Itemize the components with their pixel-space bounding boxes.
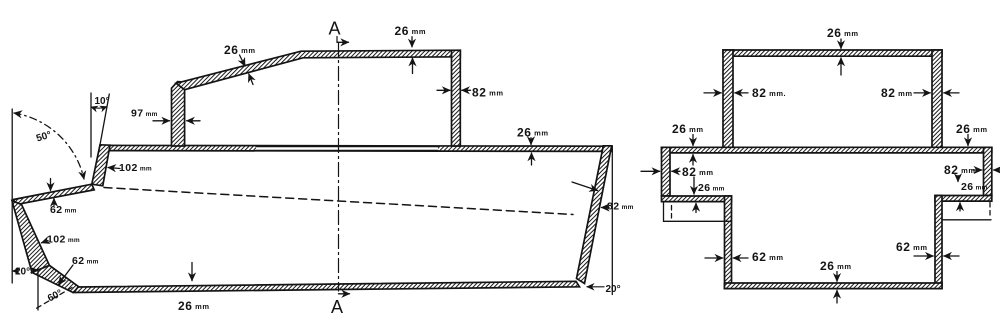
svg-text:20°: 20° [606,284,621,295]
svg-text:82 mm: 82 mm [682,165,713,179]
hull rear plate 82mm, sloped 20deg [577,146,612,284]
hull roof plate (26mm) [104,145,612,151]
svg-text:26 mm: 26 mm [827,26,858,40]
hull upper left wall 82mm [662,147,671,196]
right sponson floor 26mm [935,196,992,202]
svg-text:10°: 10° [95,96,110,107]
svg-text:26 mm: 26 mm [178,299,209,313]
turret roof plate 26mm (sloped then flat) [176,50,460,89]
svg-text:26 mm: 26 mm [517,126,548,140]
26mm roof arrows [240,55,246,66]
50 deg angle arc (dash-dot) [14,113,84,179]
turret ring opening in hull roof [256,147,438,151]
svg-text:A: A [329,19,341,39]
svg-text:26 mm: 26 mm [672,122,703,136]
hull top roof 26mm [662,147,992,153]
turret right wall 82mm [932,50,942,147]
10 deg tilted line [100,94,109,145]
left track outline [664,202,732,222]
right track dashed edge [989,203,991,218]
turret rear plate 82mm [452,50,461,146]
rear vertical reference line [611,146,613,295]
svg-text:26 mm: 26 mm [395,24,426,38]
turret front plate 97mm [172,82,185,146]
hull upper right wall 82mm [984,147,992,195]
turret roof 26mm [723,50,942,56]
10 deg reference vertical line [90,93,92,157]
svg-text:102 mm: 102 mm [47,234,80,246]
svg-text:A: A [331,297,343,316]
97mm arrows [153,120,170,122]
10 deg small arc [91,107,107,109]
hull lower right wall 62mm [935,196,942,289]
hull floor 26mm [74,281,580,292]
svg-text:50°: 50° [35,130,53,145]
svg-text:26 mm: 26 mm [698,182,725,194]
svg-text:102 mm: 102 mm [119,162,152,174]
hull lower left wall 62mm [725,196,732,289]
60 deg dashed line + label [36,288,72,309]
svg-text:82 mm.: 82 mm. [752,86,786,100]
turret left wall 82mm [723,50,733,147]
lower glacis plate 102mm [12,201,49,273]
svg-text:60°: 60° [46,288,64,305]
svg-text:20°: 20° [15,267,30,278]
right track outline [942,219,991,221]
svg-text:82 mm: 82 mm [607,201,634,213]
svg-text:82 mm: 82 mm [944,163,975,177]
svg-text:26 mm: 26 mm [820,259,851,273]
svg-text:26 mm: 26 mm [956,122,987,136]
svg-text:82 mm: 82 mm [881,86,912,100]
second vertical reference line at nose [37,269,39,311]
left track dashed centre mark [671,206,673,220]
svg-text:97 mm: 97 mm [131,108,158,120]
driver front plate 102mm [92,145,110,186]
hull bottom floor 26mm [725,283,943,289]
svg-text:62 mm: 62 mm [752,250,783,264]
front vertical reference line [11,109,13,283]
svg-text:82 mm: 82 mm [472,86,503,100]
section line A-A (dash-dot) [338,43,340,292]
lower bend plate 62mm [32,265,79,292]
upper glacis plate 62mm [14,184,95,204]
svg-text:62 mm: 62 mm [896,240,927,254]
dashed reference line across hull [104,188,573,215]
svg-text:62 mm: 62 mm [72,255,99,267]
left sponson floor 26mm [662,196,732,202]
